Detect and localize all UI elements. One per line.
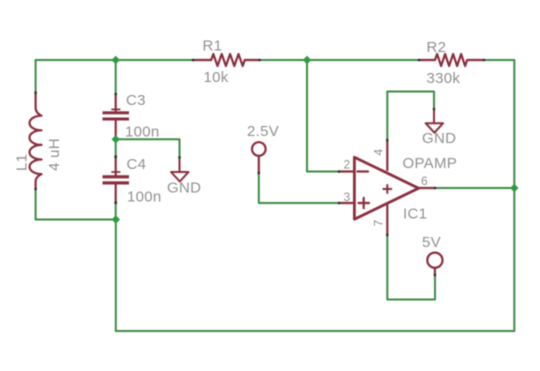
capacitor C3 (103, 94, 130, 138)
svg-text:IC1: IC1 (403, 206, 427, 223)
svg-text:GND: GND (167, 180, 201, 197)
svg-text:OPAMP: OPAMP (403, 155, 458, 172)
svg-text:7: 7 (372, 220, 386, 227)
svg-text:C4: C4 (127, 156, 147, 173)
inductor L1 (29, 93, 41, 189)
svg-text:GND: GND (422, 130, 456, 147)
svg-text:5V: 5V (422, 234, 441, 251)
resistor R2 (419, 54, 484, 66)
svg-text:R2: R2 (427, 39, 447, 56)
wire top-right corner (484, 59, 514, 61)
wire between R1 and R2 (260, 59, 420, 61)
wire bottom-left horizontal (36, 219, 116, 221)
op-amp IC1 (339, 140, 435, 235)
wire right vertical (513, 60, 515, 331)
svg-text:4: 4 (372, 149, 386, 156)
wire output pin6 (435, 187, 514, 189)
ground GND2 (426, 109, 444, 133)
svg-text:3: 3 (344, 190, 351, 204)
wire bottom horizontal (116, 330, 515, 332)
junction dot bottom-left (112, 215, 120, 223)
resistor R1 (193, 54, 260, 66)
svg-text:L1: L1 (14, 154, 31, 171)
svg-text:6: 6 (421, 174, 428, 188)
wire pin4 to GND2 (387, 92, 434, 141)
junction dot between caps (112, 135, 120, 143)
wire to GND1 (116, 139, 180, 157)
wire C3-C4 link (115, 139, 117, 157)
wire cap column from top junction (115, 60, 117, 94)
wire left vertical upper (35, 60, 37, 93)
svg-text:2: 2 (344, 158, 351, 172)
svg-text:C3: C3 (126, 92, 146, 109)
junction dot output right (510, 184, 518, 192)
svg-text:10k: 10k (204, 69, 229, 86)
svg-text:2.5V: 2.5V (247, 123, 279, 140)
svg-text:4 uH: 4 uH (46, 138, 63, 171)
ground GND1 (171, 157, 189, 181)
svg-text:100n: 100n (125, 124, 160, 141)
wire junction down to bottom (115, 220, 117, 332)
wire pin7 to 5V (387, 235, 435, 300)
wire C4 to bottom junction (115, 203, 117, 220)
pin tip dots (34, 59, 485, 277)
capacitor C4 (103, 157, 130, 203)
junction dot top-left (112, 56, 120, 64)
wire left vertical lower (35, 189, 37, 220)
supply 2.5V (252, 142, 266, 173)
wire pin2 net from junction (307, 60, 339, 172)
svg-text:100n: 100n (127, 189, 162, 206)
wire top-left segment (36, 59, 193, 61)
junction dot mid top (303, 56, 311, 64)
svg-text:330k: 330k (427, 70, 461, 87)
supply 5V (427, 253, 442, 275)
svg-text:R1: R1 (203, 38, 223, 55)
wire 2.5V to pin3 (259, 173, 339, 203)
